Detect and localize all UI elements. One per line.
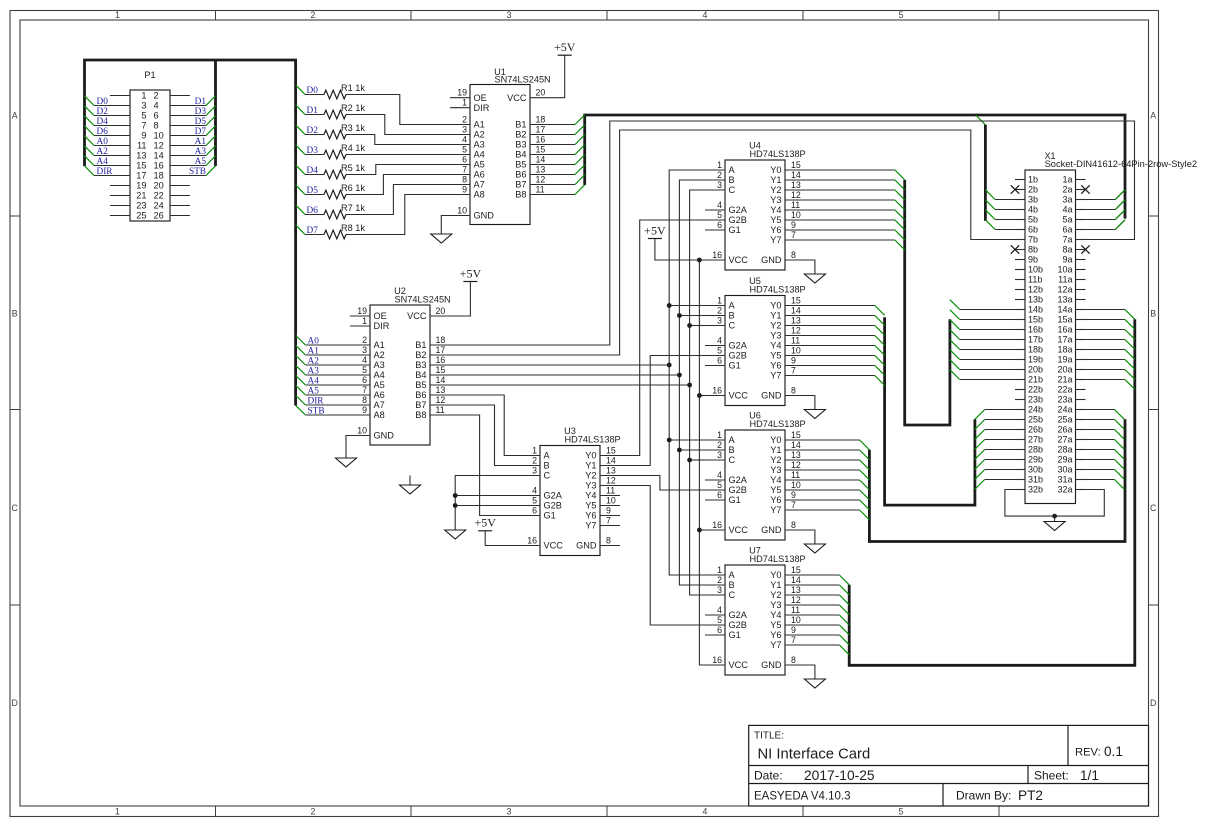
pin 1 A <box>705 565 736 580</box>
wire X1 16b bus entry <box>950 320 1015 330</box>
pin 20a stub <box>1076 369 1086 371</box>
svg-text:14: 14 <box>791 306 801 316</box>
svg-text:G1: G1 <box>729 361 741 371</box>
wire U7.Y2 to bus <box>805 595 849 605</box>
pin 2 B <box>705 575 735 590</box>
svg-text:12b: 12b <box>1028 285 1043 295</box>
svg-text:6: 6 <box>717 625 722 635</box>
no-connect X1 8a <box>1081 245 1089 253</box>
pin 2 B <box>705 170 735 185</box>
bus entry: drop to X1 b-rows bus <box>976 115 986 125</box>
wire U4.Y2 to bus <box>805 190 905 200</box>
pin 10 Y5 <box>770 210 805 225</box>
svg-text:1/1: 1/1 <box>1080 768 1099 783</box>
ground loop X1 32b/32a <box>1005 490 1104 531</box>
pin 4 A3 <box>350 355 385 370</box>
svg-text:20b: 20b <box>1028 365 1043 375</box>
pin 5 A4 <box>350 365 385 380</box>
pin 13b stub <box>1015 299 1025 301</box>
wire P1 pins 23/24 stubs <box>110 205 190 207</box>
pin 2 A1 <box>350 335 385 350</box>
svg-text:G2A: G2A <box>729 475 748 485</box>
pin 28a stub <box>1076 449 1086 451</box>
svg-text:7a: 7a <box>1062 235 1072 245</box>
pin 14 Y1 <box>585 456 620 471</box>
svg-text:HD74LS138P: HD74LS138P <box>750 554 806 564</box>
svg-text:B7: B7 <box>515 180 526 190</box>
svg-text:30b: 30b <box>1028 465 1043 475</box>
svg-text:26b: 26b <box>1028 425 1043 435</box>
pin 12a stub <box>1076 289 1086 291</box>
wire X1 31a bus entry <box>1086 480 1125 490</box>
svg-text:14: 14 <box>154 151 164 161</box>
svg-text:A: A <box>729 570 736 580</box>
resistor R8 1k <box>296 195 450 239</box>
wire U1 B3 to bus <box>550 135 585 145</box>
svg-text:SN74LS245N: SN74LS245N <box>495 75 551 85</box>
svg-text:D3: D3 <box>195 107 207 117</box>
node A0 (P1 pin 11) <box>85 136 131 147</box>
svg-text:11a: 11a <box>1058 275 1072 285</box>
pin 30b stub <box>1015 469 1025 471</box>
pin 18 B1 <box>415 335 450 350</box>
svg-text:G2B: G2B <box>544 501 562 511</box>
wire U6.Y2 to bus <box>805 460 869 470</box>
svg-text:11: 11 <box>536 185 545 195</box>
svg-text:SN74LS245N: SN74LS245N <box>395 295 451 305</box>
wire X1 14a bus entry <box>1086 310 1135 320</box>
svg-text:1: 1 <box>717 296 722 306</box>
wire U4.Y3 to bus <box>805 200 905 210</box>
svg-text:16: 16 <box>536 135 546 145</box>
connector P1 (26-pin header) <box>130 70 170 221</box>
ground at U6 pin 8 <box>804 530 825 553</box>
svg-text:13: 13 <box>536 165 546 175</box>
svg-text:VCC: VCC <box>507 93 527 103</box>
svg-text:31a: 31a <box>1057 475 1072 485</box>
wire U5.Y7 to bus <box>805 376 885 386</box>
svg-text:D1: D1 <box>195 97 207 107</box>
wire U7.Y6 to bus <box>805 635 849 645</box>
svg-text:A4: A4 <box>97 157 109 167</box>
svg-text:A: A <box>12 111 18 121</box>
svg-text:19: 19 <box>457 88 467 98</box>
node D5 (P1 pin 8) <box>170 116 216 127</box>
svg-text:VCC: VCC <box>729 255 749 265</box>
pin 29a stub <box>1076 459 1086 461</box>
svg-text:Y5: Y5 <box>770 351 781 361</box>
svg-text:Y4: Y4 <box>770 341 781 351</box>
svg-text:7: 7 <box>791 366 796 376</box>
wire U4.Y5 to bus <box>805 220 905 230</box>
svg-text:Y3: Y3 <box>770 195 781 205</box>
svg-text:R7 1k: R7 1k <box>341 203 365 213</box>
svg-text:4b: 4b <box>1028 205 1038 215</box>
pin 15 Y0 <box>770 565 805 580</box>
svg-text:10: 10 <box>791 346 801 356</box>
svg-text:VCC: VCC <box>729 525 749 535</box>
svg-text:D2: D2 <box>97 107 109 117</box>
svg-text:15: 15 <box>791 160 801 170</box>
svg-text:7: 7 <box>606 516 611 526</box>
svg-text:25b: 25b <box>1028 415 1043 425</box>
svg-text:B4: B4 <box>515 150 526 160</box>
pin 12 Y3 <box>770 326 805 341</box>
pin 31a stub <box>1076 479 1086 481</box>
resistor R4 1k <box>296 143 450 159</box>
svg-text:A5: A5 <box>308 387 320 397</box>
svg-text:11: 11 <box>791 200 800 210</box>
svg-text:B1: B1 <box>415 340 426 350</box>
svg-text:C: C <box>729 590 736 600</box>
wire X1 3a bus entry <box>1086 190 1126 200</box>
svg-text:17: 17 <box>536 125 546 135</box>
svg-text:24a: 24a <box>1057 405 1072 415</box>
svg-text:15a: 15a <box>1057 315 1072 325</box>
wire U2.B6 to U3.A <box>450 395 520 456</box>
svg-text:23: 23 <box>136 201 146 211</box>
wire U2.B5 to decoder C line <box>450 384 690 386</box>
op-amp U1 SN74LS245N buffer <box>450 67 551 225</box>
svg-text:10: 10 <box>791 480 801 490</box>
svg-text:14: 14 <box>606 456 616 466</box>
svg-text:A2: A2 <box>308 357 320 367</box>
wire U2.B1 to X1 7a <box>450 121 1135 345</box>
pin 25b stub <box>1015 419 1025 421</box>
svg-text:A8: A8 <box>374 410 385 420</box>
svg-text:6: 6 <box>154 111 159 121</box>
svg-text:B8: B8 <box>515 190 526 200</box>
svg-text:3: 3 <box>717 585 722 595</box>
wire P1 pins 19/20 stubs <box>110 185 190 187</box>
pin 5a stub <box>1076 219 1086 221</box>
svg-text:16: 16 <box>436 355 446 365</box>
pin 9 Y6 <box>770 356 805 371</box>
pin 20b stub <box>1015 369 1025 371</box>
pin 16 VCC <box>705 250 748 265</box>
pin 2 A1 <box>450 115 485 130</box>
ground rail at U3 C,G2A,G2B <box>445 476 540 540</box>
svg-text:G1: G1 <box>729 495 741 505</box>
svg-text:A0: A0 <box>308 337 320 347</box>
svg-text:8: 8 <box>791 386 796 396</box>
svg-text:Y7: Y7 <box>770 505 781 515</box>
svg-text:2: 2 <box>717 575 722 585</box>
svg-text:Y7: Y7 <box>770 235 781 245</box>
svg-text:5b: 5b <box>1028 215 1038 225</box>
svg-text:3: 3 <box>507 806 512 816</box>
svg-text:D5: D5 <box>195 117 207 127</box>
svg-text:4: 4 <box>717 605 722 615</box>
node A4 (P1 pin 15) <box>85 156 131 167</box>
node D0 (P1 pin 3) <box>85 96 131 107</box>
svg-text:3: 3 <box>717 316 722 326</box>
pin 9 Y6 <box>770 220 805 235</box>
op-amp U6 HD74LS138P decoder <box>705 411 806 541</box>
wire X1 18b bus entry <box>950 340 1015 350</box>
svg-text:7: 7 <box>462 165 467 175</box>
svg-text:B6: B6 <box>415 390 426 400</box>
svg-text:8: 8 <box>606 536 611 546</box>
pin 7 Y7 <box>770 635 805 650</box>
wire X1 17b bus entry <box>950 330 1015 340</box>
svg-text:12: 12 <box>791 595 801 605</box>
pin 4 A3 <box>450 135 485 150</box>
svg-text:15: 15 <box>791 296 801 306</box>
svg-text:13b: 13b <box>1028 295 1043 305</box>
wire U5.Y4 to bus <box>805 346 885 356</box>
svg-text:23a: 23a <box>1057 395 1072 405</box>
svg-text:C: C <box>729 185 736 195</box>
svg-text:STB: STB <box>308 407 325 417</box>
pin 12 Y3 <box>585 476 620 491</box>
wire U4.Y4 to bus <box>805 210 905 220</box>
svg-text:B5: B5 <box>515 160 526 170</box>
wire U2.B8 to U3.G1 <box>450 415 520 516</box>
wire U1 B4 to bus <box>550 145 585 155</box>
pin 9 Y6 <box>585 506 620 521</box>
no-connect X1 8b <box>1011 245 1019 253</box>
ground at U1 pin 10 <box>431 216 452 244</box>
svg-text:17: 17 <box>436 345 446 355</box>
svg-text:17: 17 <box>136 171 146 181</box>
svg-text:Y2: Y2 <box>585 471 596 481</box>
svg-text:Y6: Y6 <box>770 361 781 371</box>
svg-text:4a: 4a <box>1062 205 1072 215</box>
wire X1 4b bus entry <box>985 200 1015 210</box>
svg-text:G2A: G2A <box>729 610 748 620</box>
pin 6 A5 <box>450 155 485 170</box>
svg-text:Y3: Y3 <box>770 465 781 475</box>
pin 10 Y5 <box>770 480 805 495</box>
svg-text:31b: 31b <box>1028 475 1043 485</box>
svg-text:17b: 17b <box>1028 335 1043 345</box>
pin 21a stub <box>1076 379 1086 381</box>
wire X1 28b bus entry <box>975 450 1015 460</box>
pin 7a stub <box>1076 239 1086 241</box>
svg-text:11: 11 <box>137 141 147 151</box>
svg-text:26: 26 <box>154 211 164 221</box>
wire X1 30a bus entry <box>1086 470 1125 480</box>
pin 16 VCC <box>705 520 748 535</box>
pin 11 B8 <box>515 185 550 200</box>
svg-text:12: 12 <box>791 326 801 336</box>
svg-text:15: 15 <box>536 145 546 155</box>
ground at U4 pin 8 <box>804 260 825 283</box>
wire P1 pin1 stub <box>110 95 130 97</box>
svg-text:Y1: Y1 <box>585 461 596 471</box>
wire U1 B6 to bus <box>550 165 585 175</box>
wire U3.Y0 to U4.G2B <box>620 220 706 456</box>
pin 7 A6 <box>450 165 485 180</box>
pin 14 Y1 <box>770 306 805 321</box>
pin 11 Y4 <box>770 336 805 351</box>
svg-text:+5V: +5V <box>644 223 666 237</box>
wire X1 28a bus entry <box>1086 450 1125 460</box>
pin 1 A <box>705 296 736 311</box>
pin 16 B3 <box>515 135 550 150</box>
wire X1 26b bus entry <box>975 430 1015 440</box>
svg-text:A1: A1 <box>195 137 207 147</box>
svg-text:12: 12 <box>154 141 164 151</box>
wire P1 pin2 stub <box>170 95 190 97</box>
svg-text:6: 6 <box>532 506 537 516</box>
svg-text:B3: B3 <box>515 140 526 150</box>
wire X1 27a bus entry <box>1086 440 1125 450</box>
svg-text:A2: A2 <box>374 350 385 360</box>
svg-text:25: 25 <box>136 211 146 221</box>
pin 1 A <box>705 430 736 445</box>
svg-text:19b: 19b <box>1028 355 1043 365</box>
pin 10 Y5 <box>585 496 620 511</box>
pin 15 Y0 <box>770 430 805 445</box>
svg-text:26a: 26a <box>1057 425 1072 435</box>
svg-text:G1: G1 <box>729 630 741 640</box>
svg-text:Y0: Y0 <box>770 301 781 311</box>
power +5V at U2 <box>450 266 481 316</box>
svg-text:GND: GND <box>761 391 782 401</box>
svg-text:A1: A1 <box>374 340 385 350</box>
wire X1 21b bus entry <box>950 370 1015 380</box>
wire X1 14b bus entry <box>950 300 1015 310</box>
pin 6 G1 <box>705 220 741 235</box>
svg-text:Y2: Y2 <box>770 455 781 465</box>
node DIR (U2 A7) <box>296 395 350 406</box>
svg-text:VCC: VCC <box>729 660 749 670</box>
wire U7.Y4 to bus <box>805 615 849 625</box>
wire X1 25b bus entry <box>975 420 1015 430</box>
svg-text:14b: 14b <box>1028 305 1043 315</box>
pin 12 B7 <box>415 395 450 410</box>
node A3 (U2 A4) <box>296 365 350 376</box>
pin 3 C <box>705 585 736 600</box>
pin 6 A5 <box>350 375 385 390</box>
svg-text:G2B: G2B <box>729 485 747 495</box>
svg-text:11b: 11b <box>1028 275 1042 285</box>
svg-text:A6: A6 <box>474 170 485 180</box>
pin 30a stub <box>1076 469 1086 471</box>
pin 12 Y3 <box>770 595 805 610</box>
svg-text:21b: 21b <box>1028 375 1043 385</box>
svg-text:10: 10 <box>791 615 801 625</box>
pin 32b stub <box>1015 489 1025 491</box>
pin 15b stub <box>1015 319 1025 321</box>
svg-text:G2A: G2A <box>729 341 748 351</box>
svg-text:6b: 6b <box>1028 225 1038 235</box>
svg-text:20a: 20a <box>1057 365 1072 375</box>
wire X1 29b bus entry <box>975 460 1015 470</box>
node STB (P1 pin 18) <box>170 166 216 177</box>
svg-text:+5V: +5V <box>460 266 482 280</box>
svg-text:C: C <box>544 471 551 481</box>
svg-text:A1: A1 <box>308 347 320 357</box>
svg-text:5: 5 <box>717 480 722 490</box>
svg-text:A7: A7 <box>474 180 485 190</box>
bus: P1/R/U2 data-address bus (net D0-D7,A0-A5,DIR,STB) <box>85 60 296 406</box>
pin 3b stub <box>1015 199 1025 201</box>
pin 22a stub <box>1076 389 1086 391</box>
svg-text:3: 3 <box>717 180 722 190</box>
svg-text:G2A: G2A <box>544 491 563 501</box>
pin 3a stub <box>1076 199 1086 201</box>
pin 16 VCC <box>520 536 563 551</box>
svg-text:STB: STB <box>189 167 206 177</box>
svg-text:5: 5 <box>717 210 722 220</box>
svg-text:3b: 3b <box>1028 195 1038 205</box>
svg-text:5: 5 <box>899 10 904 20</box>
svg-text:A3: A3 <box>195 147 207 157</box>
svg-text:B: B <box>729 580 735 590</box>
svg-text:15: 15 <box>791 565 801 575</box>
pin 11 Y4 <box>585 486 620 501</box>
svg-text:A6: A6 <box>374 390 385 400</box>
svg-text:HD74LS138P: HD74LS138P <box>565 435 621 445</box>
svg-text:A4: A4 <box>374 370 385 380</box>
wire U3.Y3 to U7.G2B <box>620 486 706 626</box>
svg-text:8a: 8a <box>1062 245 1072 255</box>
svg-text:16a: 16a <box>1057 325 1072 335</box>
pin 2 B <box>705 440 735 455</box>
svg-text:10: 10 <box>154 131 164 141</box>
wire X1 21a bus entry <box>1086 380 1135 390</box>
pin 14a stub <box>1076 309 1086 311</box>
svg-text:7b: 7b <box>1028 235 1038 245</box>
svg-text:GND: GND <box>374 431 395 441</box>
pin 16b stub <box>1015 329 1025 331</box>
svg-text:27b: 27b <box>1028 435 1043 445</box>
wire U6.Y5 to bus <box>805 490 869 500</box>
svg-text:5: 5 <box>899 806 904 816</box>
node D6 (P1 pin 9) <box>85 126 131 137</box>
svg-text:16: 16 <box>712 655 722 665</box>
resistor R3 1k <box>296 123 450 145</box>
wire X1 30b bus entry <box>975 470 1015 480</box>
svg-text:5a: 5a <box>1062 215 1072 225</box>
pin 7 A6 <box>350 385 385 400</box>
svg-text:1: 1 <box>717 430 722 440</box>
svg-text:1: 1 <box>717 160 722 170</box>
svg-text:HD74LS138P: HD74LS138P <box>750 419 806 429</box>
svg-text:6: 6 <box>362 375 367 385</box>
node A2 (P1 pin 13) <box>85 146 131 157</box>
wire U6.Y6 to bus <box>805 500 869 510</box>
svg-text:C: C <box>1150 503 1157 513</box>
wire U5.Y2 to bus <box>805 326 885 336</box>
svg-text:20: 20 <box>436 306 446 316</box>
pin 13 Y2 <box>585 466 620 481</box>
bus: X1 b-rows 3b-6b vertical <box>984 125 987 221</box>
pin 8 A7 <box>450 175 485 190</box>
pin 9b stub <box>1015 259 1025 261</box>
pin 5 A4 <box>450 145 485 160</box>
pin 6a stub <box>1076 229 1086 231</box>
node A1 (P1 pin 12) <box>170 136 216 147</box>
svg-text:9a: 9a <box>1062 255 1072 265</box>
no-connect X1 2a <box>1081 185 1089 193</box>
wire U4.Y7 to bus <box>805 240 905 250</box>
svg-text:22b: 22b <box>1028 385 1043 395</box>
svg-text:A1: A1 <box>474 120 485 130</box>
svg-text:A5: A5 <box>474 160 485 170</box>
wire U2.B3 to decoder A line <box>450 364 669 366</box>
pin 17b stub <box>1015 339 1025 341</box>
svg-text:G2B: G2B <box>729 215 747 225</box>
pin 6 G1 <box>705 490 741 505</box>
svg-text:10b: 10b <box>1028 265 1043 275</box>
wire U5.Y1 to bus <box>805 316 885 326</box>
node A0 (U2 A1) <box>296 335 350 346</box>
pin 8 GND <box>761 250 805 265</box>
